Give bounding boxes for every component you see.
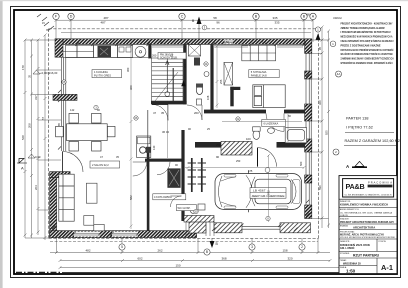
svg-text:UWAGI: UWAGI [333,16,342,20]
leader marks top-left [37,14,54,30]
svg-text:PODPIS:: PODPIS: [379,241,387,243]
coffee table [86,183,97,203]
svg-text:255: 255 [219,79,223,84]
area texts [345,116,401,142]
section A left [17,162,27,164]
svg-text:572: 572 [267,190,271,195]
hall door arcs [152,104,168,120]
svg-text:KOWALEWSCY MONIKA I WOJCIECH: KOWALEWSCY MONIKA I WOJCIECH [340,203,388,206]
svg-text:UWAGA SPRAWDZIĆ STOLARKĘ W ŚWI: UWAGA SPRAWDZIĆ STOLARKĘ W ŚWIETLE NA MI… [341,38,394,43]
stairs [152,58,183,101]
svg-text:140: 140 [152,145,156,150]
svg-text:PŁYTKI GRES: PŁYTKI GRES [94,74,111,78]
svg-text:35: 35 [161,111,165,115]
svg-text:5: 5 [121,245,123,249]
interior dim vertical living [130,44,303,229]
svg-text:ADRES INWESTYCJI:: ADRES INWESTYCJI: [340,208,359,211]
svg-text:5 SYPIALNIA: 5 SYPIALNIA [251,70,267,74]
separators [339,199,397,274]
top dimension line [55,19,315,42]
window left upper [61,57,66,94]
svg-text:575: 575 [248,169,253,173]
room labels [90,70,285,211]
interior wall hall-bedroom [210,44,213,110]
svg-text:PARTER 138: PARTER 138 [346,116,368,120]
interior wall kitchen end [148,44,151,58]
svg-text:208: 208 [28,123,32,128]
svg-text:UPR. BUD. MPOIA/22/2014 W SPEC: UPR. BUD. MPOIA/22/2014 W SPECJALNOŚCI A… [340,236,395,239]
scattered dimension texts [57,40,303,173]
svg-text:PRZED Z DOSTAWCAMI I WAŻNE: PRZED Z DOSTAWCAMI I WAŻNE [341,42,381,47]
svg-text:602: 602 [137,256,142,260]
chimney block bedroom [230,87,233,107]
svg-text:A-1: A-1 [381,263,393,272]
svg-text:487: 487 [100,21,105,25]
svg-text:96: 96 [216,21,220,25]
bed [253,85,285,108]
svg-text:320: 320 [318,100,322,105]
junction tick marks on top wall [52,43,310,236]
small circled markers [62,62,270,221]
svg-text:D: D [70,15,73,19]
svg-text:3: 3 [251,245,253,249]
porch steps [186,222,214,236]
svg-text:2 SALON 32,2: 2 SALON 32,2 [92,163,109,167]
right dimension chains [312,26,330,229]
svg-text:SCHODY ŻELB.: SCHODY ŻELB. [160,56,178,59]
svg-text:182: 182 [262,40,267,44]
svg-text:360: 360 [129,85,133,90]
svg-text:ZMIESC TRZEBA ROZWIĄZANIA ALBO: ZMIESC TRZEBA ROZWIĄZANIA ALBOW [341,26,385,30]
svg-text:DATA OPR.:: DATA OPR.: [340,240,351,243]
elevation markers left [33,70,40,74]
car plate label [250,188,286,199]
wc gosp fixtures [190,205,196,213]
svg-text:158: 158 [282,249,287,253]
svg-text:DOPUSZCZALNE DO OTWORÓW WYBIER: DOPUSZCZALNE DO OTWORÓW WYBIERANYCH OCZY… [341,47,394,52]
wardrobe bedroom [242,45,276,61]
wall bedroom-garage [195,142,221,148]
svg-text:PROJEKT ARCHITEKTONICZNY - KON: PROJEKT ARCHITEKTONICZNY - KONSTRUKCYJNY [341,21,393,25]
svg-text:253: 253 [236,159,241,163]
svg-text:6 ŁAZIENKA: 6 ŁAZIENKA [264,121,279,125]
svg-text:264: 264 [34,185,38,190]
wall bar left mid [53,94,77,100]
svg-text:368: 368 [221,256,226,260]
svg-text:90: 90 [216,155,220,159]
svg-text:B: B [206,250,208,254]
notes block [333,16,394,65]
svg-text:WIOSENNA 35: WIOSENNA 35 [343,261,361,265]
bottom dimension chains [50,238,354,269]
window sills bedroom top [152,46,303,47]
svg-text:35: 35 [28,74,32,78]
svg-text:2: 2 [301,245,303,249]
svg-text:360: 360 [126,67,130,72]
second top dim row [100,21,279,25]
svg-text:4A: 4A [337,72,341,76]
svg-text:100: 100 [246,137,251,141]
svg-text:582: 582 [129,195,133,200]
svg-text:TEMAT:: TEMAT: [340,259,347,262]
scan edge left [0,0,3,288]
svg-text:WYMIARÓW NA OSOBNIKU OSNIC. SP: WYMIARÓW NA OSOBNIKU OSNIC. SPRAWDZIĆ IL… [341,60,393,65]
svg-text:320: 320 [287,256,292,260]
svg-text:I PROJEKTAMI BRANŻOWYMI. W PRZ: I PROJEKTAMI BRANŻOWYMI. W PRZYPADKU [341,29,391,34]
svg-text:262: 262 [157,249,162,253]
wall right exterior segments [305,39,312,54]
logo box PA&B [343,179,394,197]
svg-text:UL. ŚW. BRONISŁAWY 21, KRAKÓW: UL. ŚW. BRONISŁAWY 21, KRAKÓW TEL. 12 63… [345,193,393,196]
svg-text:253: 253 [216,143,221,147]
boiler room left wall [147,152,150,231]
svg-text:335: 335 [272,16,277,20]
svg-text:ZAMIENNIKI NAD ZMIANY I ZMIENI: ZAMIENNIKI NAD ZMIANY I ZMIENI BEZKRYTYC… [341,56,394,61]
svg-text:MGR INŻ. ARCH. PIOTR KOWALCZYK: MGR INŻ. ARCH. PIOTR KOWALCZYK [340,233,384,236]
label box stairs [158,53,186,60]
boundary dashdot bottom left [16,271,62,273]
section triangle center [181,80,186,86]
flag top right 1 [316,34,321,41]
svg-text:UL. WIOSENNA DZ. NR 114/5, OBR: UL. WIOSENNA DZ. NR 114/5, OBRĘB ŁAWICA [340,211,393,214]
interior dims bedroom/garage [185,45,306,170]
interior door arcs extra [133,162,147,176]
svg-text:RYSUNEK:: RYSUNEK: [340,253,350,255]
door garage arc [258,148,277,167]
svg-text:4 KOTŁOWNIA: 4 KOTŁOWNIA [154,195,172,199]
bottom bubbles [119,244,305,255]
svg-text:142: 142 [70,108,75,112]
grid bubbles top [53,13,316,19]
bottom wall dashed line [50,241,318,243]
svg-text:335: 335 [274,21,279,25]
svg-text:PANELE 14,8: PANELE 14,8 [251,74,267,78]
svg-text:47: 47 [153,111,157,115]
svg-text:925: 925 [325,130,329,135]
svg-text:WŁAŚCIWY W DOMIESZCZONE TYNKÓW: WŁAŚCIWY W DOMIESZCZONE TYNKÓW ZA UCHWYT… [341,51,393,56]
svg-text:528: 528 [21,135,25,140]
svg-text:RZUT PARTERU: RZUT PARTERU [353,254,380,258]
kitchen counter [63,45,148,57]
wall bar above living [50,172,71,178]
svg-text:ARCHITEKTURA: ARCHITEKTURA [353,226,375,230]
wall left lower exterior [50,178,57,238]
svg-text:ARCHITEKTONICZNA: ARCHITEKTONICZNA [368,185,392,188]
svg-text:150: 150 [175,264,180,268]
title block frame [339,176,397,274]
wall bottom exterior living [50,231,197,238]
kitchen island [137,136,151,158]
svg-text:NIEZGODNOŚCI W WYMIARACH PROWA: NIEZGODNOŚCI W WYMIARACH PROWADZONYCH A [341,34,394,39]
sofa [59,174,74,221]
roof outline dashed [49,29,319,239]
svg-text:482: 482 [85,249,90,253]
interior wall bedroom-bath [204,110,266,114]
dining table [56,113,115,151]
svg-text:LUBOŃ: LUBOŃ [340,214,348,217]
svg-text:PA&B: PA&B [346,182,365,191]
section flag top B [197,17,202,25]
svg-text:PRACOWNIA: PRACOWNIA [368,181,393,185]
svg-text:98: 98 [306,13,310,17]
left dimension chains [24,34,62,241]
svg-text:C: C [181,15,184,19]
svg-text:PROJEKT ARCHITEKTONICZNO-BUDOW: PROJEKT ARCHITEKTONICZNO-BUDOWLANY [340,221,394,224]
svg-text:LB 4567: LB 4567 [253,189,266,193]
bubbles right [336,71,342,77]
svg-text:178: 178 [21,65,25,70]
wall band wc south [184,216,214,223]
svg-text:GM. LUBOŃ: GM. LUBOŃ [340,247,354,250]
interior wall hall-boiler [145,159,182,162]
wall corner top-left [55,39,63,57]
svg-text:263: 263 [183,63,187,68]
svg-text:264: 264 [103,40,108,44]
bathroom fixtures top-right [253,127,307,143]
svg-text:95: 95 [318,46,322,50]
svg-text:RAZEM Z GARAŻEM 102,60 M2: RAZEM Z GARAŻEM 102,60 M2 [345,138,401,143]
cabinet bedroom tall [224,62,233,85]
svg-text:BRANŻA:: BRANŻA: [340,225,349,228]
svg-text:58: 58 [213,16,217,20]
boiler [167,168,180,187]
svg-text:1 KUCHNIA: 1 KUCHNIA [94,70,108,74]
svg-text:108: 108 [206,95,210,100]
interior wall bath-garage vertical [181,130,184,196]
svg-text:590: 590 [318,185,322,190]
svg-text:260: 260 [194,111,199,115]
section flag bottom B [210,241,215,248]
door entrance left with arc [63,152,84,173]
interior wall stairs right [183,44,186,104]
tv unit [84,216,94,226]
svg-text:260: 260 [152,53,157,57]
radiator crosses [192,158,202,192]
svg-text:487: 487 [103,16,108,20]
garage bottom piers [214,223,242,233]
svg-text:+0,00=216,30: +0,00=216,30 [40,71,58,75]
svg-text:560: 560 [299,161,303,166]
svg-text:1:50: 1:50 [346,269,356,274]
svg-text:317: 317 [34,95,38,100]
svg-text:I PIĘTRO 77,62: I PIĘTRO 77,62 [346,126,373,130]
svg-text:WC GOSP.: WC GOSP. [178,206,191,210]
svg-text:A: A [21,166,24,171]
car [215,174,302,210]
wall top exterior [61,39,311,45]
window left lower [61,100,66,151]
interior wall under stairs [151,101,187,105]
svg-text:36 32: 36 32 [162,130,169,134]
svg-text:57: 57 [41,116,45,120]
wc fixtures center [188,45,200,56]
svg-text:0,00: 0,00 [35,155,41,159]
